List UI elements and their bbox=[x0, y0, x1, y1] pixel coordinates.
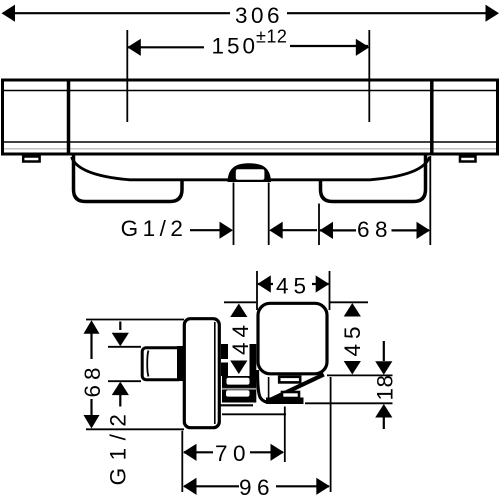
hidden bottom line bbox=[222, 413, 286, 415]
valve stem right strip upper bbox=[250, 344, 257, 376]
stem bottom line bbox=[218, 404, 253, 406]
left bracket bbox=[74, 154, 183, 202]
svg-text:18: 18 bbox=[373, 374, 398, 400]
valve stem left strip upper bbox=[221, 344, 228, 359]
svg-text:68: 68 bbox=[80, 362, 105, 397]
dim 18 bbox=[305, 341, 398, 429]
spout diagonal face bbox=[271, 375, 324, 400]
left tab bbox=[23, 157, 39, 162]
right end-cap separator bbox=[430, 79, 434, 155]
svg-text:68: 68 bbox=[357, 217, 393, 242]
dim 45 top bbox=[257, 271, 330, 310]
svg-text:G1/2: G1/2 bbox=[121, 216, 188, 241]
nipple-dome junction bbox=[177, 346, 184, 381]
dim 68 left bbox=[80, 320, 184, 430]
svg-text:45: 45 bbox=[340, 321, 365, 356]
svg-text:306: 306 bbox=[235, 3, 283, 28]
svg-text:150: 150 bbox=[212, 34, 259, 59]
svg-text:96: 96 bbox=[239, 475, 275, 500]
body inner bottom line bbox=[4, 141, 496, 143]
dome inner line bbox=[214, 322, 216, 424]
nipple face line bbox=[147, 351, 148, 377]
dim 44 bbox=[224, 302, 256, 374]
right tab bbox=[460, 157, 476, 162]
svg-text:±12: ±12 bbox=[256, 27, 287, 47]
dim G1/2 side bbox=[106, 322, 142, 486]
dim 150 +-12 bbox=[127, 27, 369, 123]
svg-text:G1/2: G1/2 bbox=[106, 407, 131, 486]
dim G1/2 front bbox=[121, 183, 317, 246]
left end-cap separator bbox=[67, 79, 71, 155]
dim 306 bbox=[2, 3, 500, 28]
svg-text:45: 45 bbox=[276, 274, 311, 299]
svg-text:70: 70 bbox=[215, 441, 251, 466]
spout outlet box bbox=[282, 392, 299, 398]
body bbox=[3, 80, 498, 154]
svg-text:44: 44 bbox=[228, 320, 253, 355]
spout left edge bbox=[258, 370, 272, 403]
dim 96 bbox=[183, 377, 331, 500]
body inner top line bbox=[4, 90, 496, 92]
spout inner line bbox=[268, 377, 270, 398]
right bracket bbox=[321, 154, 426, 202]
spout dome inner window bbox=[236, 169, 265, 179]
dim 45 right bbox=[327, 302, 393, 375]
dim 68 front bbox=[319, 156, 430, 245]
shelf line with bracket inner curves bbox=[72, 157, 430, 180]
body faint lower line bbox=[4, 148, 496, 150]
spout bottom band bbox=[266, 398, 304, 405]
valve stem lower block bbox=[222, 376, 256, 403]
dim 70 bbox=[182, 407, 284, 493]
spout dome front bbox=[228, 163, 272, 182]
wall nipple G1/2 bbox=[142, 348, 182, 380]
escutcheon dome bbox=[184, 319, 219, 428]
spout top notch bbox=[279, 377, 300, 383]
handle square bbox=[258, 303, 327, 374]
